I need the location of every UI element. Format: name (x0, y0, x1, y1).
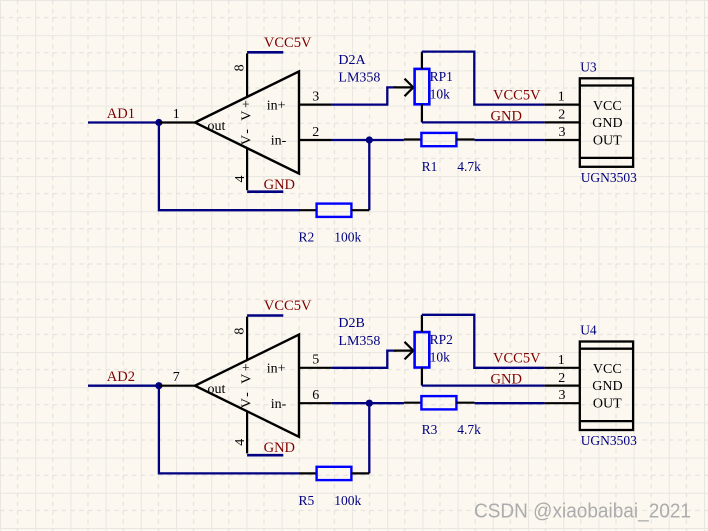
resistor R1 left pin (404, 138, 422, 140)
resistor R3 body (421, 396, 456, 409)
potentiometer RP1 wiper arrow (394, 79, 413, 97)
svg-text:10k: 10k (430, 350, 451, 365)
connector U4 pin3 stub (545, 402, 580, 404)
svg-text:GND: GND (491, 109, 522, 125)
pin 5 op-amp in+ stub (299, 367, 332, 369)
svg-text:GND: GND (592, 116, 622, 131)
connector U3 body (580, 78, 633, 167)
svg-text:7: 7 (173, 370, 180, 385)
svg-text:LM358: LM358 (338, 334, 380, 349)
svg-text:D2B: D2B (338, 316, 364, 331)
wire in+ net to RP2 wiper (332, 351, 396, 368)
connector U4 body (580, 342, 633, 431)
connector U3 pin1 stub (545, 103, 580, 105)
wire VCC5V net from RP1 top to U3 pin1 (422, 52, 545, 105)
svg-text:VCC5V: VCC5V (493, 87, 541, 103)
svg-text:AD2: AD2 (107, 369, 135, 385)
wire GND net from RP2 bottom to U4 pin2 (422, 384, 545, 386)
svg-text:R5: R5 (299, 493, 315, 508)
svg-text:4: 4 (233, 176, 248, 183)
svg-text:3: 3 (559, 388, 566, 403)
resistor R2 right pin (351, 209, 369, 211)
svg-text:8: 8 (232, 64, 247, 71)
svg-text:8: 8 (232, 328, 247, 335)
potentiometer RP2 wiper arrow (394, 342, 413, 360)
connector U4 pin2 stub (545, 385, 580, 387)
wire AD1 net horizontal (88, 121, 160, 123)
svg-text:100k: 100k (334, 493, 361, 508)
connector U4 pin1 stub (545, 367, 580, 369)
svg-text:5: 5 (312, 353, 319, 368)
node junction in-/R5 (366, 400, 373, 407)
wire in+ net to RP1 wiper (332, 87, 396, 104)
svg-text:in-: in- (271, 134, 287, 149)
wire GND net from RP1 bottom to U3 pin2 (422, 121, 545, 123)
connector U3 pin2 stub (545, 121, 580, 123)
svg-text:R1: R1 (422, 159, 438, 174)
resistor R2 left pin (299, 209, 317, 211)
svg-text:4.7k: 4.7k (457, 422, 481, 437)
svg-text:UGN3503: UGN3503 (581, 170, 637, 185)
wire VCC5V net from RP2 top to U4 pin1 (422, 315, 545, 368)
wire in- net to R1 (332, 139, 404, 141)
node junction AD2/out (155, 382, 162, 389)
svg-text:4: 4 (233, 439, 248, 446)
svg-text:VCC5V: VCC5V (264, 35, 312, 51)
svg-text:in+: in+ (267, 362, 286, 377)
svg-text:UGN3503: UGN3503 (581, 433, 637, 448)
wire AD2 net vertical to feedback (159, 386, 300, 474)
pin 7 op-amp output (160, 385, 196, 387)
svg-text:10k: 10k (430, 86, 451, 101)
svg-text:R2: R2 (299, 230, 315, 245)
wire AD2 net horizontal (88, 385, 160, 387)
pin 4 op-amp V- (246, 411, 248, 453)
wire riser junction to R2 (368, 140, 370, 210)
potentiometer RP2 body (415, 332, 430, 367)
svg-text:100k: 100k (334, 230, 361, 245)
node junction in-/R2 (366, 136, 373, 143)
power port GND bar (bottom) (247, 454, 283, 457)
resistor R3 left pin (404, 402, 422, 404)
resistor R1 body (421, 133, 456, 146)
svg-text:R3: R3 (422, 422, 438, 437)
svg-text:OUT: OUT (593, 397, 622, 412)
svg-text:1: 1 (173, 107, 180, 122)
node junction AD1/out (155, 119, 162, 126)
svg-text:AD1: AD1 (107, 106, 135, 122)
svg-text:out: out (208, 119, 226, 134)
svg-text:GND: GND (491, 372, 522, 388)
wire AD1 net vertical to feedback (159, 123, 300, 211)
op-amp D2B triangle (195, 335, 299, 437)
svg-text:3: 3 (312, 89, 319, 104)
svg-text:RP1: RP1 (430, 69, 453, 84)
potentiometer RP1 body (415, 69, 430, 104)
wire riser junction to R5 (368, 403, 370, 473)
pin 3 op-amp in+ stub (299, 103, 332, 105)
resistor R3 right pin (456, 402, 474, 404)
svg-text:out: out (208, 382, 226, 397)
resistor R5 right pin (351, 472, 369, 474)
resistor R1 right pin (456, 138, 474, 140)
svg-text:D2A: D2A (338, 53, 366, 68)
potentiometer RP1 top pin (421, 52, 423, 69)
svg-text:OUT: OUT (593, 133, 622, 148)
svg-text:CSDN @xiaobaibai_2021: CSDN @xiaobaibai_2021 (474, 500, 691, 522)
potentiometer RP1 bottom pin (421, 104, 423, 122)
power port VCC5V bar (top) (247, 314, 283, 317)
wire R3 to U4 pin3 (475, 402, 545, 404)
svg-text:GND: GND (264, 440, 295, 456)
svg-text:3: 3 (559, 125, 566, 140)
svg-text:in-: in- (271, 397, 287, 412)
pin 4 op-amp V- (246, 148, 248, 190)
resistor R5 body (317, 467, 352, 480)
resistor R2 body (317, 204, 352, 217)
resistor R5 left pin (299, 472, 317, 474)
svg-text:VCC5V: VCC5V (493, 351, 541, 367)
svg-text:6: 6 (312, 388, 319, 403)
pin 8 op-amp V+ (246, 317, 248, 361)
svg-text:2: 2 (312, 125, 319, 140)
svg-text:GND: GND (592, 379, 622, 394)
svg-text:2: 2 (558, 371, 565, 386)
op-amp D2A triangle (195, 71, 299, 173)
svg-text:LM358: LM358 (338, 71, 380, 86)
svg-text:U4: U4 (580, 323, 597, 338)
svg-text:VCC: VCC (593, 99, 622, 114)
pin 1 op-amp output (160, 121, 196, 123)
potentiometer RP2 top pin (421, 315, 423, 332)
svg-text:4.7k: 4.7k (457, 159, 481, 174)
svg-text:VCC: VCC (593, 362, 622, 377)
pin 8 op-amp V+ (246, 53, 248, 97)
svg-text:VCC5V: VCC5V (264, 298, 312, 314)
svg-text:1: 1 (558, 90, 565, 105)
wire in- net to R3 (332, 402, 404, 404)
wire R1 to U3 pin3 (475, 139, 545, 141)
pin 6 op-amp in- stub (299, 402, 332, 404)
svg-text:U3: U3 (580, 59, 597, 74)
svg-text:in+: in+ (267, 98, 286, 113)
pin 2 op-amp in- stub (299, 139, 332, 141)
power port VCC5V bar (top) (247, 51, 283, 54)
svg-text:RP2: RP2 (430, 332, 453, 347)
potentiometer RP2 bottom pin (421, 368, 423, 386)
svg-text:GND: GND (264, 177, 295, 193)
svg-text:2: 2 (558, 108, 565, 123)
connector U3 pin3 stub (545, 139, 580, 141)
svg-text:1: 1 (558, 353, 565, 368)
power port GND bar (bottom) (247, 190, 283, 193)
